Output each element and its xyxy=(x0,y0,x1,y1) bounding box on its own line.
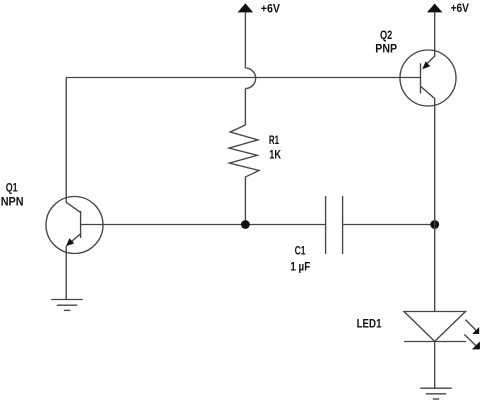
LED1 light emission arrow 1 xyxy=(466,320,480,334)
ground (below Q1) xyxy=(51,300,82,311)
Q2 base bar xyxy=(420,63,422,93)
svg-text:PNP: PNP xyxy=(375,42,397,56)
wire hop over horizontal wire xyxy=(245,68,255,89)
R1 label xyxy=(269,133,279,147)
svg-text:NPN: NPN xyxy=(1,195,24,209)
Q2 collector lead xyxy=(421,86,435,311)
svg-text:LED1: LED1 xyxy=(357,316,382,330)
power symbol +6V arrow (center) xyxy=(238,3,254,12)
1K value label xyxy=(269,148,281,162)
capacitor C1 plates xyxy=(326,196,343,254)
Q1 label xyxy=(6,180,18,194)
svg-text:C1: C1 xyxy=(295,244,306,258)
+6V label (right) xyxy=(451,1,470,15)
junction dot at R1 / middle wire xyxy=(241,220,250,229)
wire from LED1 cathode to ground xyxy=(434,342,436,389)
svg-text:1K: 1K xyxy=(269,148,281,162)
resistor R1 xyxy=(229,125,259,177)
C1 label xyxy=(295,244,306,258)
LED1 triangle xyxy=(404,312,466,342)
svg-text:Q1: Q1 xyxy=(6,180,18,194)
+6V label (center) xyxy=(261,2,281,16)
wire from +6V arrow down to Q2 emitter xyxy=(434,12,436,56)
Q2 label xyxy=(380,28,392,42)
LED1 label xyxy=(357,316,382,330)
LED1 light emission arrow 2 xyxy=(464,334,480,349)
transistor Q2 circle xyxy=(400,50,456,106)
ground (below LED1) xyxy=(420,388,452,399)
left vertical wire down to Q1 collector xyxy=(66,78,80,213)
wire from hop down to resistor R1 xyxy=(244,89,246,126)
transistor Q1 circle xyxy=(46,197,103,254)
wire from +6V arrow down to hop xyxy=(244,12,246,68)
svg-text:+6V: +6V xyxy=(261,2,281,16)
svg-text:R1: R1 xyxy=(269,133,279,147)
wire from C1 right plate to junction xyxy=(343,224,435,226)
LED1 cathode bar xyxy=(404,341,466,343)
PNP label xyxy=(375,42,397,56)
Q1 base bar xyxy=(80,211,82,238)
power symbol +6V arrow (right) xyxy=(427,4,443,13)
top horizontal wire (Q1 collector net to Q2 base) xyxy=(66,77,420,79)
NPN label xyxy=(1,195,24,209)
svg-text:1 µF: 1 µF xyxy=(290,259,310,273)
svg-text:+6V: +6V xyxy=(451,1,470,15)
middle horizontal wire (Q1 base to C1) xyxy=(81,224,326,226)
Q2 emitter lead with PNP arrow xyxy=(422,56,435,69)
junction dot at right vertical wire xyxy=(430,220,439,229)
Q1 emitter lead with NPN arrow xyxy=(66,234,81,300)
wire from R1 down to junction xyxy=(244,177,246,224)
svg-text:Q2: Q2 xyxy=(380,28,392,42)
1 uF value label xyxy=(290,259,310,273)
